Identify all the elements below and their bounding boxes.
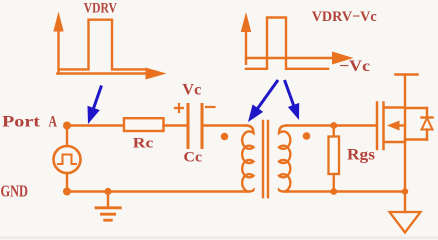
svg-text:Port: Port [2, 114, 41, 131]
svg-text:Vc: Vc [182, 82, 201, 99]
svg-text:VDRV−Vc: VDRV−Vc [312, 9, 377, 25]
svg-text:−Vc: −Vc [339, 58, 370, 75]
svg-text:Rc: Rc [133, 135, 154, 151]
svg-text:VDRV: VDRV [84, 1, 117, 17]
svg-text:A: A [49, 114, 58, 131]
svg-text:GND: GND [1, 182, 29, 201]
svg-text:Cc: Cc [184, 149, 203, 165]
svg-text:Rgs: Rgs [347, 147, 375, 164]
